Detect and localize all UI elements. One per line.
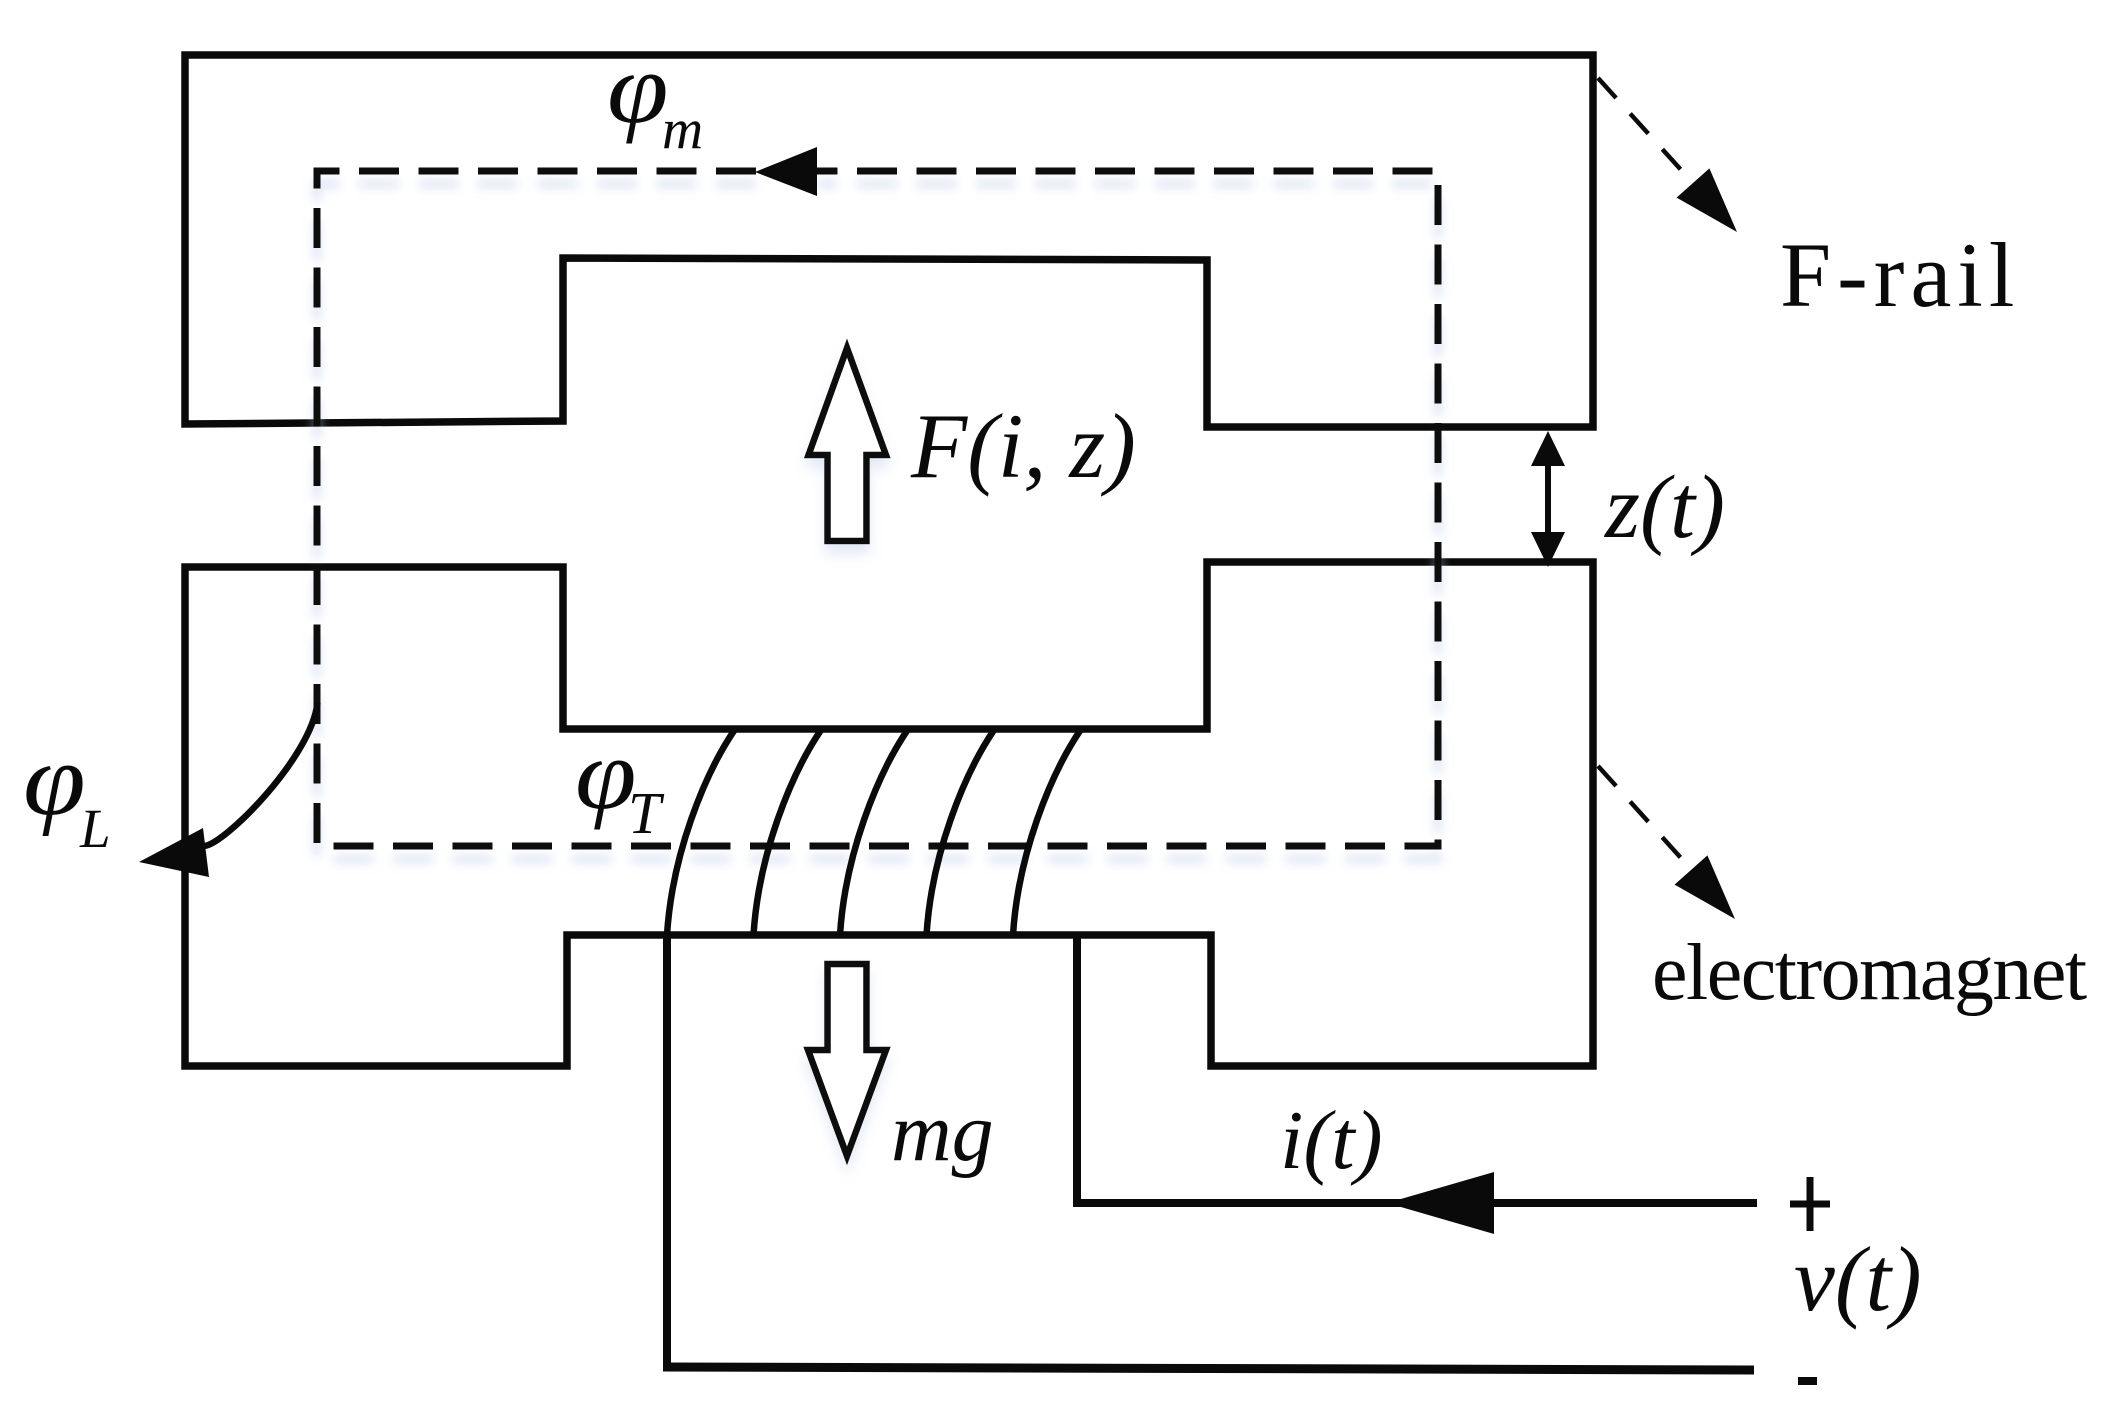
svg-text:electromagnet: electromagnet: [1652, 929, 2087, 1017]
F-rail core outline: [185, 55, 1593, 427]
wire: coil right lead down: [1073, 935, 1081, 1203]
wire: i(t) feed from plus terminal: [1073, 1199, 1757, 1207]
svg-text:T: T: [628, 780, 665, 846]
electromagnet core outline: [185, 562, 1593, 1066]
coil turn 4: [927, 730, 995, 935]
svg-text:m: m: [662, 98, 703, 161]
svg-text:i(t): i(t): [1280, 1094, 1383, 1187]
coil turn 3: [840, 730, 908, 935]
leader arrow to F-rail label (dashed): [1598, 78, 1737, 232]
svg-text:F-rail: F-rail: [1780, 224, 2020, 326]
svg-text:F(i, z): F(i, z): [910, 395, 1136, 497]
leader arrow to electromagnet label (dashed): [1598, 766, 1735, 919]
flux loop phi_m dashed rectangle: [317, 171, 1438, 846]
coil turn 5: [1013, 730, 1081, 935]
coil turn 1: [667, 730, 735, 935]
coil turn 2: [754, 730, 822, 935]
svg-text:v(t): v(t): [1794, 1228, 1922, 1330]
svg-text:φ: φ: [607, 32, 668, 144]
mg block arrow (down): [808, 964, 886, 1156]
air-gap arrow z(t) double head: [1531, 431, 1565, 567]
svg-text:L: L: [79, 798, 111, 859]
wire: bottom return to minus terminal: [663, 1367, 1754, 1370]
minus terminal sign: [1798, 1377, 1817, 1385]
wire: coil left lead down: [663, 935, 671, 1367]
svg-text:φ: φ: [23, 724, 86, 837]
svg-text:z(t): z(t): [1603, 458, 1725, 557]
flux arrowhead on top dashed line: [755, 147, 817, 196]
current arrowhead i(t): [1387, 1172, 1494, 1234]
plus terminal sign: [1790, 1177, 1830, 1231]
F(i,z) block arrow (up): [809, 348, 887, 541]
leakage flux arrow phi_L (curved): [139, 703, 318, 877]
svg-text:mg: mg: [891, 1086, 994, 1179]
